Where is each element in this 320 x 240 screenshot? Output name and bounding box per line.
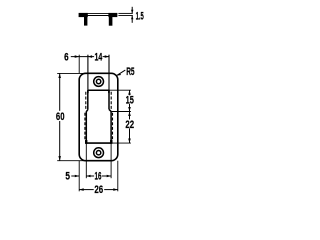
- svg-text:R5: R5: [126, 66, 134, 78]
- svg-text:6: 6: [64, 51, 69, 63]
- svg-text:60: 60: [56, 111, 65, 123]
- svg-text:26: 26: [94, 184, 103, 196]
- svg-text:5: 5: [65, 171, 70, 183]
- svg-text:1.5: 1.5: [136, 10, 144, 22]
- svg-text:16: 16: [95, 171, 102, 183]
- svg-text:22: 22: [125, 119, 134, 131]
- svg-text:14: 14: [95, 51, 103, 63]
- svg-text:15: 15: [126, 94, 134, 106]
